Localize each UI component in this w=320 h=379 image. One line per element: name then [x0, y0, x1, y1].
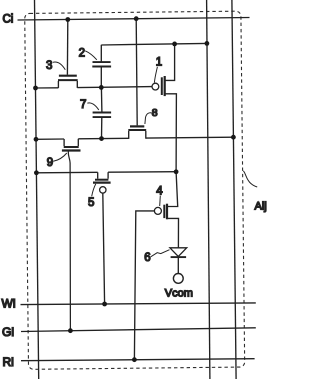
leader 4 [159, 196, 162, 206]
node Gi [68, 328, 73, 333]
svg-text:Ri: Ri [3, 355, 14, 369]
wire Q8 gate lead from Ci node [136, 19, 137, 126]
wire row y=172 left segment [36, 171, 97, 174]
svg-text:8: 8 [152, 107, 158, 119]
wire Ci row line [18, 18, 250, 21]
transistor Q1 (p-type, circled gate) [152, 44, 176, 172]
leader 2 [85, 51, 97, 60]
svg-text:3: 3 [46, 60, 52, 72]
transistor Q3 [58, 76, 78, 88]
wire second horizontal line y=44 [101, 43, 207, 45]
wire left vertical bus [35, 0, 39, 379]
node Ri [132, 357, 137, 362]
node y44-x208 [205, 41, 210, 46]
transistor Q5 (p-type, circled gate below) [93, 172, 111, 193]
wire row y=139 middle segment [78, 137, 128, 140]
wire Wi row line [21, 303, 256, 305]
leader 1 [154, 67, 157, 83]
node bus-y173 [34, 170, 39, 175]
wire storage-node row y=87 Q3 drain to Q1 gate [77, 87, 152, 88]
svg-text:9: 9 [47, 157, 53, 169]
node x176-y172 [174, 169, 179, 174]
pixel boundary dashed border [25, 11, 245, 369]
wire row y=139 right segment [146, 136, 234, 139]
leader 8 [145, 113, 152, 124]
capacitor C7 [93, 113, 112, 118]
node Wi [102, 302, 107, 307]
svg-text:6: 6 [144, 252, 150, 264]
wire Q3 gate lead from Ci node [66, 20, 68, 75]
node cap-y87 [99, 85, 104, 90]
node y44-x175 [172, 42, 177, 47]
transistor Q8 [128, 126, 146, 138]
transistor Q9 [62, 139, 81, 151]
node cap-y139 [99, 136, 104, 141]
leader 7 [87, 103, 99, 110]
wire row y=172 right segment [108, 171, 176, 174]
wire row y=139 left segment [36, 138, 64, 140]
wire Ri row line [21, 359, 255, 361]
wire storage-node row y=87 left of Q3 [36, 87, 59, 89]
leader 3 [53, 62, 66, 70]
wire Q5 gate lead down to Wi [103, 193, 105, 304]
wire Gi row line [21, 328, 256, 332]
svg-text:Ci: Ci [3, 14, 14, 26]
svg-text:Gi: Gi [2, 325, 14, 339]
wire vertical column line x=234 [232, 0, 236, 379]
node bus-y139 [34, 137, 39, 142]
svg-text:2: 2 [79, 47, 85, 59]
wire Q9 gate lead down to Gi [68, 152, 70, 331]
capacitor C2 top lead [100, 45, 102, 62]
svg-text:Aij: Aij [255, 201, 267, 213]
svg-text:5: 5 [88, 197, 94, 209]
node x234-y137 [231, 135, 236, 140]
node bus-y88 [33, 86, 38, 91]
leader Aij [243, 171, 257, 187]
svg-text:Wi: Wi [2, 296, 16, 310]
node Ci-Q8 [134, 16, 139, 21]
capacitor C2 bottom lead [100, 67, 102, 88]
leader 9 [53, 153, 67, 161]
svg-text:7: 7 [80, 99, 86, 111]
capacitor C2 [92, 62, 111, 66]
terminal circle Vcom [173, 274, 183, 284]
leader 6 [151, 250, 170, 257]
leader 5 [92, 184, 96, 197]
wire vertical column line x=208 [207, 0, 210, 379]
diode D6 [170, 248, 187, 257]
capacitor C7 bottom lead [101, 117, 103, 138]
node Ci-Q3 [65, 17, 70, 22]
svg-text:Vcom: Vcom [165, 288, 193, 300]
wire Q4 gate to Ri [134, 211, 154, 360]
wire diode to Vcom terminal [177, 257, 179, 273]
transistor Q4 (p-type, circled gate) [154, 172, 178, 248]
svg-text:1: 1 [156, 57, 162, 69]
capacitor C7 top lead [100, 88, 103, 113]
